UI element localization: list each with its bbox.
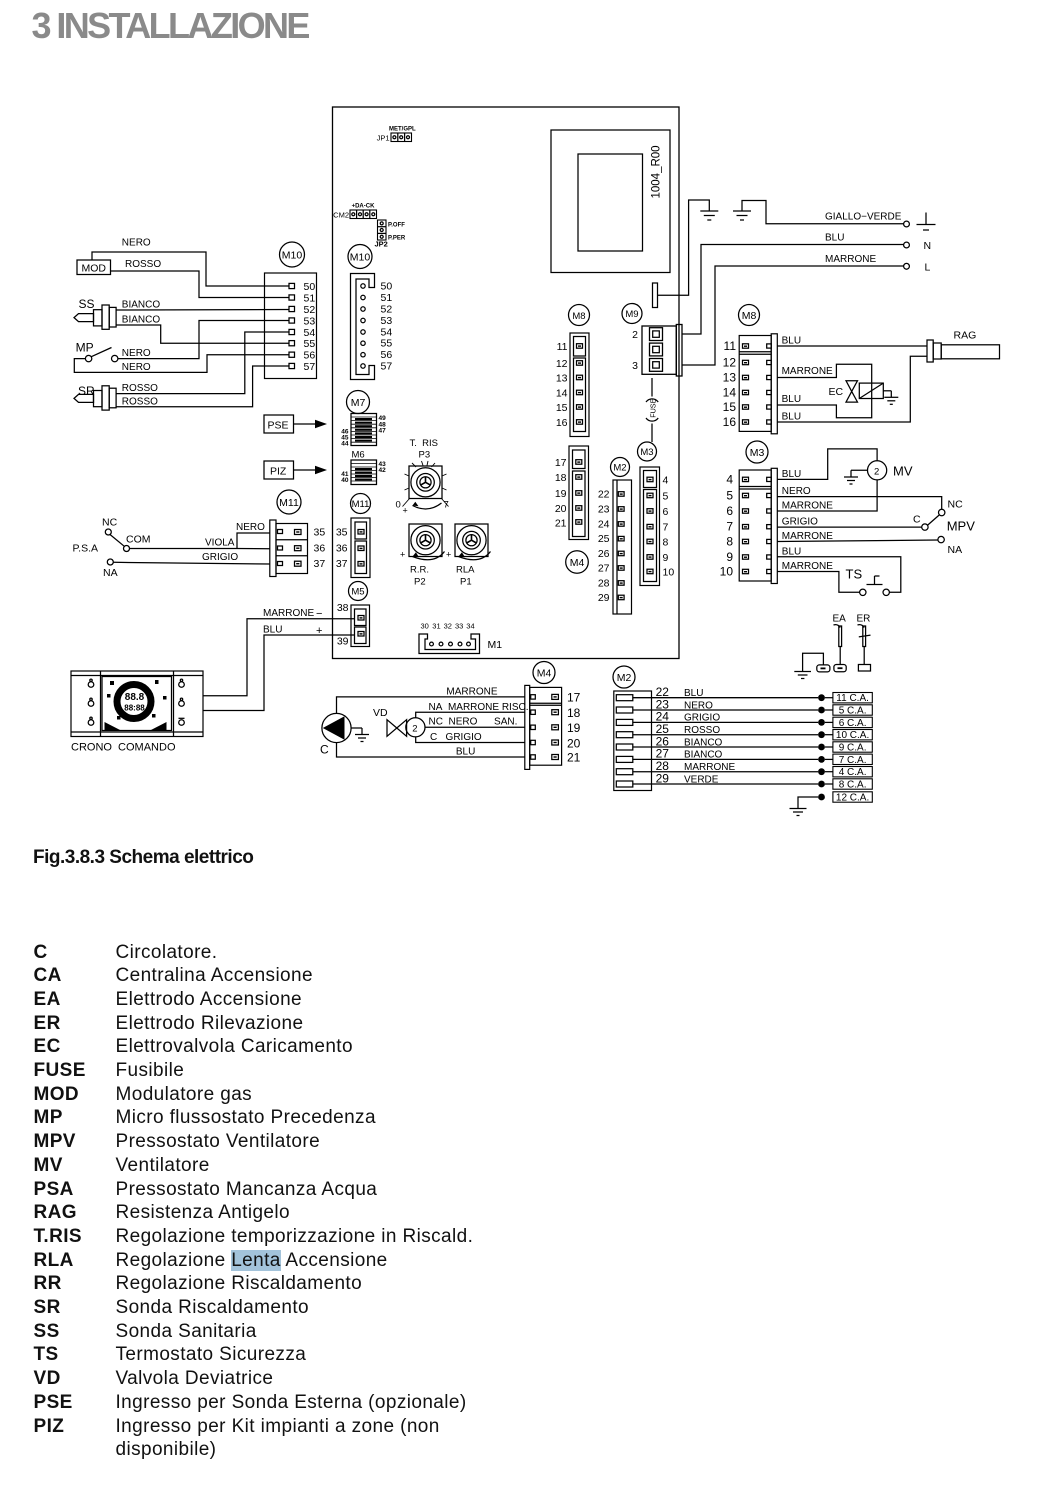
svg-text:54: 54 (304, 327, 316, 339)
svg-text:18: 18 (555, 472, 567, 484)
ground at MV (844, 470, 868, 484)
connector label M7 (347, 391, 370, 414)
wire BLU pin4 to MV (777, 449, 877, 480)
svg-text:11: 11 (557, 341, 568, 353)
svg-text:MET/GPL: MET/GPL (389, 127, 416, 133)
svg-text:17: 17 (555, 457, 567, 469)
connector M2 inside PCB (pins 22-29) (598, 480, 632, 614)
svg-text:M10: M10 (282, 250, 303, 262)
svg-text:NC: NC (102, 517, 118, 529)
svg-text:7 C.A.: 7 C.A. (839, 755, 867, 766)
svg-text:18: 18 (567, 706, 581, 720)
ground symbol (top left) (700, 211, 718, 220)
svg-text:P1: P1 (460, 577, 472, 588)
svg-text:ER: ER (857, 614, 871, 625)
svg-text:52: 52 (304, 304, 316, 316)
svg-text:VD: VD (373, 707, 388, 719)
svg-text:BLU: BLU (456, 747, 475, 758)
svg-text:M11: M11 (279, 497, 299, 509)
svg-text:BLU: BLU (782, 412, 801, 423)
svg-text:44: 44 (341, 441, 349, 448)
wires M2 to CA junction dots (633, 698, 818, 784)
svg-text:27: 27 (598, 563, 610, 575)
jumper CM2 (333, 204, 376, 220)
svg-text:9: 9 (663, 552, 669, 564)
svg-text:T. RIS: T. RIS (410, 438, 439, 449)
svg-text:21: 21 (567, 751, 581, 765)
svg-text:ROSSO: ROSSO (122, 383, 158, 394)
ground symbol 2 (top) (733, 211, 751, 220)
svg-text:M3: M3 (640, 447, 653, 458)
svg-text:CM2: CM2 (333, 211, 349, 220)
svg-text:+: + (316, 625, 322, 637)
svg-text:C: C (913, 514, 921, 526)
svg-text:SR: SR (78, 384, 95, 398)
svg-text:C GRIGIO: C GRIGIO (430, 732, 482, 743)
valvola VD (373, 707, 425, 737)
wire MARRONE to L (682, 266, 904, 365)
wire 12 C.A. to ground (798, 797, 818, 809)
svg-text:P.S.A: P.S.A (73, 543, 99, 555)
svg-text:9: 9 (726, 550, 733, 564)
svg-text:NERO: NERO (122, 362, 151, 373)
wire NERO MP loop to pin 56 (74, 355, 289, 373)
wire BLU pin11 to RAG (777, 345, 927, 347)
svg-text:BIANCO: BIANCO (122, 300, 161, 311)
svg-text:55: 55 (381, 338, 393, 350)
svg-text:EC: EC (829, 386, 844, 398)
svg-text:BIANCO: BIANCO (684, 737, 723, 748)
wire MARRONE pin8 to MPV NA (777, 540, 938, 542)
svg-text:11 C.A.: 11 C.A. (836, 693, 869, 704)
svg-text:NC: NC (948, 499, 964, 511)
svg-text:8: 8 (726, 535, 733, 549)
svg-text:N: N (924, 240, 932, 252)
svg-text:R.R.: R.R. (410, 565, 429, 576)
connector M4 bottom (17-21) (525, 685, 581, 769)
svg-text:57: 57 (381, 361, 393, 373)
svg-text:M2: M2 (617, 672, 632, 684)
svg-text:BIANCO: BIANCO (122, 315, 161, 326)
connector M8 inside PCB (pins 11-16) (556, 333, 589, 437)
wire BLU pin9 to TS (777, 557, 901, 593)
svg-text:6: 6 (726, 504, 733, 518)
svg-text:32: 32 (444, 622, 452, 631)
terminal circle earth (904, 221, 910, 227)
ground symbol (bottom) (790, 809, 807, 816)
svg-text:+: + (400, 550, 405, 560)
svg-text:RLA: RLA (456, 565, 475, 576)
svg-text:56: 56 (304, 350, 316, 362)
connector label M2 (bottom) (613, 666, 635, 688)
connector label M4 (inside PCB) (566, 551, 589, 574)
connector M10 inside PCB (pins 50-57) (351, 274, 393, 380)
svg-text:5 C.A.: 5 C.A. (839, 706, 867, 717)
jumper JP2 P.OFF / P.PER (375, 220, 406, 249)
svg-text:+: + (403, 506, 408, 516)
svg-text:37: 37 (314, 558, 326, 570)
svg-text:51: 51 (304, 292, 316, 304)
svg-text:50: 50 (381, 281, 393, 293)
wire VIOLA COM to M11 pin36 (130, 548, 270, 550)
svg-text:TS: TS (846, 567, 863, 582)
svg-text:29: 29 (656, 771, 670, 785)
svg-text:34: 34 (466, 622, 474, 631)
svg-text:GRIGIO: GRIGIO (782, 517, 818, 528)
svg-text:52: 52 (381, 304, 393, 316)
svg-text:MPV: MPV (947, 519, 976, 534)
connector label M4 (bottom) (533, 662, 555, 684)
svg-text:NA: NA (948, 544, 963, 556)
svg-text:20: 20 (567, 736, 581, 750)
svg-text:GRIGIO: GRIGIO (202, 552, 238, 563)
potentiometer P3 T.RIS (396, 438, 449, 516)
svg-text:2: 2 (412, 723, 417, 734)
svg-text:7: 7 (663, 522, 669, 534)
elettrovalvola EC (829, 381, 892, 402)
wire PCB to ground (top) (658, 200, 710, 295)
wire MARRONE - to M5 pin38 (203, 619, 355, 696)
wire NERO MOD to pin 50 (92, 252, 289, 286)
svg-text:40: 40 (341, 477, 349, 484)
svg-text:2: 2 (874, 466, 879, 477)
svg-text:P3: P3 (419, 450, 431, 461)
svg-text:10: 10 (663, 567, 675, 579)
main PCB board outline (333, 107, 680, 659)
svg-text:SS: SS (79, 297, 95, 311)
svg-text:NC NERO SAN.: NC NERO SAN. (429, 717, 518, 728)
svg-text:M6: M6 (352, 450, 365, 461)
svg-text:54: 54 (381, 327, 393, 339)
ground at pump (351, 728, 369, 742)
svg-text:10 C.A.: 10 C.A. (836, 730, 869, 741)
svg-text:−: − (316, 608, 322, 620)
svg-text:CRONO COMANDO: CRONO COMANDO (71, 742, 176, 754)
svg-text:BLU: BLU (825, 233, 844, 244)
connector label M2 (inside PCB) (611, 458, 630, 477)
wire C GRIGIO to M4 pin20 (416, 737, 525, 743)
svg-text:FUSE: FUSE (648, 398, 657, 417)
svg-text:MARRONE: MARRONE (782, 366, 833, 377)
svg-text:JP1: JP1 (377, 134, 390, 143)
connector label M3 (inside PCB) (638, 442, 657, 461)
wire BLU + to M5 pin39 (203, 635, 355, 711)
svg-text:ROSSO: ROSSO (122, 397, 158, 408)
connector label M3 (right) (746, 441, 768, 463)
micro MP switch (76, 341, 118, 362)
svg-text:51: 51 (381, 292, 393, 304)
connector label M8 (inside PCB) (569, 305, 590, 326)
crono comando programmer (71, 671, 203, 754)
svg-text:6: 6 (663, 506, 669, 518)
connector M10 left (wires 50-57) (265, 273, 317, 379)
svg-text:ROSSO: ROSSO (684, 725, 720, 736)
potentiometer P2 R.R. (400, 524, 445, 588)
svg-text:15: 15 (723, 400, 737, 414)
svg-text:56: 56 (381, 349, 393, 361)
elettrodo EA (833, 614, 847, 672)
svg-text:COM: COM (126, 534, 151, 546)
svg-text:+: + (446, 550, 451, 560)
wire BLU to N (682, 245, 904, 335)
svg-text:50: 50 (304, 281, 316, 293)
svg-text:MOD: MOD (82, 263, 107, 275)
svg-text:M8: M8 (742, 310, 757, 322)
svg-text:11: 11 (724, 339, 737, 353)
svg-text:M3: M3 (750, 447, 765, 459)
svg-text:39: 39 (337, 636, 349, 648)
svg-text:GRIGIO: GRIGIO (684, 713, 720, 724)
svg-text:35: 35 (336, 527, 348, 539)
svg-text:6 C.A.: 6 C.A. (839, 718, 867, 729)
svg-text:M4: M4 (537, 668, 552, 680)
svg-text:BLU: BLU (782, 394, 801, 405)
svg-text:21: 21 (555, 518, 567, 530)
connector M6 (card-edge block 40-43) (341, 460, 386, 485)
svg-text:28: 28 (598, 578, 610, 590)
wire NERO to M11 pin35 (237, 533, 270, 549)
svg-text:MARRONE: MARRONE (684, 762, 735, 773)
svg-text:7: 7 (726, 520, 733, 534)
svg-text:MARRONE: MARRONE (782, 501, 833, 512)
svg-text:36: 36 (314, 543, 326, 555)
svg-text:M8: M8 (572, 311, 585, 322)
connector M8 right (11-16) (723, 334, 778, 434)
sonda SR (probe symbol) (74, 384, 116, 410)
svg-text:BLU: BLU (782, 546, 801, 557)
resistenza RAG (927, 330, 1000, 363)
svg-text:55: 55 (304, 338, 316, 350)
wire MARRONE pin6 to MV bottom (777, 480, 877, 511)
terminal circle L (904, 263, 910, 269)
svg-text:NERO: NERO (684, 700, 713, 711)
wire MARRONE pin13 to EC (777, 364, 871, 418)
svg-text:BLU: BLU (684, 688, 703, 699)
connector label M11 (left) (277, 490, 301, 514)
svg-text:31: 31 (432, 622, 440, 631)
svg-text:13: 13 (556, 373, 568, 385)
svg-text:P2: P2 (414, 577, 426, 588)
svg-text:P.PER: P.PER (388, 236, 406, 242)
svg-text:JP2: JP2 (375, 240, 388, 249)
svg-text:47: 47 (379, 428, 387, 435)
connector label M9 (622, 304, 642, 324)
svg-text:BIANCO: BIANCO (684, 750, 723, 761)
svg-text:M4: M4 (570, 557, 585, 569)
svg-text:7: 7 (444, 500, 449, 511)
wire MARRONE pin10 to TS (777, 572, 859, 593)
svg-text:NA: NA (103, 567, 118, 579)
svg-text:53: 53 (304, 315, 316, 327)
connector label M10 (inside PCB) (348, 245, 372, 269)
svg-text:BLU: BLU (782, 336, 801, 347)
svg-text:NERO: NERO (122, 238, 151, 249)
svg-text:L: L (925, 262, 931, 274)
wire NA MARRONE RISC. to M4 pin18 (416, 712, 525, 718)
CA spark pad with ground (794, 653, 830, 678)
svg-text:+DA-CK: +DA-CK (352, 204, 376, 210)
svg-text:4: 4 (726, 473, 733, 487)
svg-text:57: 57 (304, 361, 316, 373)
svg-text:MARRONE: MARRONE (782, 561, 833, 572)
terminal block M9 (2,3) (632, 325, 682, 377)
wire ROSSO SR to pin 57 (116, 366, 289, 407)
connector M3 right (4-10) (720, 468, 778, 583)
svg-text:25: 25 (598, 533, 610, 545)
elettrodo ER (857, 614, 871, 672)
potentiometer P1 RLA (446, 524, 491, 588)
svg-text:38: 38 (337, 602, 349, 614)
svg-text:15: 15 (556, 402, 568, 414)
connector M7 (card-edge block 44-49) (341, 414, 386, 448)
wire GIALLO-VERDE (742, 201, 904, 224)
input PIZ box with arrow (264, 461, 327, 479)
pressostato MPV switch (913, 499, 975, 557)
svg-text:NERO: NERO (236, 522, 265, 533)
svg-text:P.OFF: P.OFF (388, 223, 405, 229)
svg-text:37: 37 (336, 558, 348, 570)
svg-text:30: 30 (421, 622, 429, 631)
input PSE box with arrow (264, 415, 327, 433)
svg-text:BLU: BLU (263, 625, 282, 636)
connector M5 (pins 38-39) (337, 602, 370, 648)
svg-text:42: 42 (379, 467, 387, 474)
svg-text:BLU: BLU (782, 469, 801, 480)
ventilatore MV (868, 461, 913, 480)
sonda SS (probe symbol) (74, 297, 116, 329)
wire NERO pin5 to MPV NC (777, 497, 941, 510)
wire BLU pin16 to RAG (777, 356, 927, 422)
terminal circle N (904, 242, 910, 248)
connector label M10 (left) (280, 242, 305, 267)
svg-text:8 C.A.: 8 C.A. (839, 780, 867, 791)
connector label M5 (349, 582, 368, 601)
wire GRIGIO pin7 to MPV C (777, 526, 921, 528)
connector M3 inside PCB (pins 4-10) (640, 467, 674, 586)
svg-text:26: 26 (598, 548, 610, 560)
svg-text:12 C.A.: 12 C.A. (836, 793, 869, 804)
svg-text:24: 24 (598, 519, 610, 531)
ground at EC (884, 391, 898, 405)
svg-text:MV: MV (893, 464, 913, 479)
svg-text:9 C.A.: 9 C.A. (839, 743, 867, 754)
wire BLU pump to M4 pin21 (337, 743, 525, 757)
svg-text:1004_R00: 1004_R00 (651, 145, 663, 198)
termostato TS (846, 567, 890, 596)
pressostato P.S.A switch (73, 517, 151, 580)
svg-text:20: 20 (555, 503, 567, 515)
fuse holder bar (653, 283, 658, 308)
svg-text:16: 16 (723, 415, 737, 429)
svg-text:23: 23 (598, 504, 610, 516)
svg-text:EA: EA (833, 614, 847, 625)
svg-text:RAG: RAG (954, 330, 977, 342)
svg-text:PSE: PSE (268, 420, 289, 432)
centralina CA terminal boxes (825, 693, 872, 804)
svg-text:M10: M10 (350, 252, 371, 264)
connector M1 (pins 30-34) (419, 622, 502, 654)
svg-text:16: 16 (556, 417, 568, 429)
svg-text:10: 10 (720, 565, 734, 579)
connector M2 bottom (22-29) (614, 685, 669, 791)
fuse FUSE (646, 378, 658, 442)
svg-text:53: 53 (381, 315, 393, 327)
svg-text:VERDE: VERDE (684, 774, 719, 785)
svg-text:13: 13 (723, 371, 737, 385)
circolatore C pump (320, 713, 351, 756)
svg-text:GIALLO−VERDE: GIALLO−VERDE (825, 212, 902, 223)
earth symbol (right of terminal) (917, 213, 936, 231)
svg-text:4 C.A.: 4 C.A. (839, 767, 867, 778)
svg-text:M5: M5 (351, 587, 364, 598)
connector label M8 (right) (739, 305, 760, 326)
svg-text:VIOLA: VIOLA (205, 538, 235, 549)
svg-text:ROSSO: ROSSO (125, 259, 161, 270)
svg-text:88.8: 88.8 (125, 692, 145, 703)
connector label M11 (inside PCB) (351, 494, 371, 514)
wire NC NERO SAN. to M4 pin19 (425, 726, 525, 728)
jumper JP1 (377, 127, 416, 143)
svg-text:36: 36 (336, 543, 348, 555)
svg-text:MARRONE: MARRONE (263, 608, 314, 619)
svg-text:0: 0 (396, 500, 401, 511)
wire ROSSO SR to pin 54 (116, 332, 289, 394)
svg-text:M1: M1 (488, 639, 503, 651)
modulator MOD box (77, 260, 111, 275)
connector M11 inside PCB (pins 35-37) (336, 518, 370, 578)
svg-text:33: 33 (455, 622, 463, 631)
svg-text:C: C (320, 743, 329, 757)
wire BIANCO SS to pin 55 (116, 325, 289, 343)
svg-text:88:88: 88:88 (124, 704, 145, 713)
svg-text:M9: M9 (625, 309, 638, 320)
svg-text:14: 14 (556, 388, 568, 400)
svg-text:22: 22 (598, 489, 610, 501)
svg-text:MARRONE: MARRONE (446, 687, 497, 698)
wire ROSSO MOD to pin 51 (111, 271, 290, 298)
svg-text:5: 5 (663, 491, 669, 503)
svg-text:4: 4 (663, 475, 669, 487)
svg-text:NERO: NERO (122, 348, 151, 359)
svg-text:NERO: NERO (782, 486, 811, 497)
svg-text:MP: MP (76, 341, 94, 355)
connector M11 left (35-37) (270, 520, 326, 577)
svg-text:8: 8 (663, 537, 669, 549)
wire GRIGIO NA to M11 pin37 (113, 562, 269, 564)
svg-text:29: 29 (598, 592, 610, 604)
wire NERO MP to pin 53 (118, 321, 289, 359)
svg-text:19: 19 (567, 721, 581, 735)
svg-text:3: 3 (632, 360, 638, 372)
junction dots (818, 694, 825, 800)
wire MARRONE pump to M4 pin17 (337, 697, 525, 714)
svg-text:5: 5 (726, 489, 733, 503)
svg-text:2: 2 (632, 329, 638, 341)
svg-text:M2: M2 (613, 463, 626, 474)
svg-text:12: 12 (556, 358, 568, 370)
svg-text:PIZ: PIZ (270, 466, 287, 478)
svg-text:MARRONE: MARRONE (825, 254, 876, 265)
svg-text:14: 14 (723, 386, 737, 400)
svg-text:M11: M11 (352, 499, 370, 510)
wire BIANCO SS to pin 52 (116, 309, 289, 312)
svg-text:19: 19 (555, 488, 567, 500)
svg-text:MARRONE: MARRONE (782, 531, 833, 542)
connector 17-21 inside PCB (555, 446, 589, 540)
svg-text:NA MARRONE RISC.: NA MARRONE RISC. (429, 702, 529, 713)
svg-text:12: 12 (723, 356, 737, 370)
svg-text:35: 35 (314, 527, 326, 539)
